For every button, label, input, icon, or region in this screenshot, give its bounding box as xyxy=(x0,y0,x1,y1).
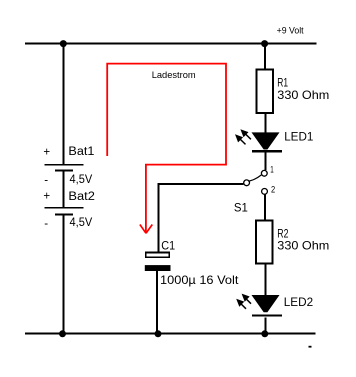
wire C1 vertical from switch xyxy=(157,183,159,252)
resistor R1 xyxy=(256,69,273,113)
svg-text:2: 2 xyxy=(271,185,275,196)
svg-text:-: - xyxy=(44,218,48,230)
battery Bat1 xyxy=(44,165,83,171)
node junction bottom battery column xyxy=(59,330,66,337)
LED1 diode xyxy=(252,132,283,151)
svg-text:+9 Volt: +9 Volt xyxy=(277,26,304,37)
wire R1 top xyxy=(264,44,266,70)
svg-text:Bat1: Bat1 xyxy=(68,146,94,158)
node junction bottom LED column xyxy=(261,330,268,337)
svg-text:-: - xyxy=(44,175,48,187)
svg-text:330 Ohm: 330 Ohm xyxy=(277,238,329,252)
svg-text:1000µ 16 Volt: 1000µ 16 Volt xyxy=(160,273,239,287)
svg-text:Bat2: Bat2 xyxy=(68,191,95,203)
wire C1 to bottom rail xyxy=(156,271,158,334)
svg-text:4,5V: 4,5V xyxy=(70,174,93,186)
switch S1 common contact xyxy=(244,180,250,186)
capacitor C1 xyxy=(145,253,171,271)
red charge current loop Ladestrom xyxy=(107,64,226,233)
switch S1 contact 2 xyxy=(262,189,268,195)
svg-text:Ladestrom: Ladestrom xyxy=(152,70,196,81)
red arrowhead xyxy=(140,225,152,234)
svg-text:+: + xyxy=(43,147,50,159)
svg-text:1: 1 xyxy=(270,165,274,176)
battery Bat2 xyxy=(44,208,83,215)
wire LED1 to switch contact 1 xyxy=(264,153,266,171)
svg-text:C1: C1 xyxy=(161,239,175,253)
svg-text:+: + xyxy=(43,190,50,202)
svg-text:S1: S1 xyxy=(234,201,248,215)
svg-text:LED1: LED1 xyxy=(284,130,314,144)
wire top rail xyxy=(25,43,316,45)
wire battery bottom xyxy=(62,214,64,333)
wire switch common to C1 column xyxy=(158,183,243,185)
switch S1 lever xyxy=(249,175,261,181)
node junction top LED column xyxy=(261,40,268,47)
svg-text:LED2: LED2 xyxy=(284,295,314,309)
svg-text:330 Ohm: 330 Ohm xyxy=(277,88,329,102)
wire LED2 to bottom rail xyxy=(264,318,266,334)
wire R2 to LED2 xyxy=(264,264,266,295)
stray mark bottom right xyxy=(309,346,312,348)
wire battery top xyxy=(62,44,64,165)
wire R1 to LED1 xyxy=(264,114,266,134)
svg-text:4,5V: 4,5V xyxy=(70,217,93,229)
node junction bottom C1 column xyxy=(155,330,162,337)
wire contact 2 to R2 xyxy=(264,194,266,220)
LED2 light arrows xyxy=(236,294,251,309)
resistor R2 xyxy=(256,221,273,264)
wire bottom rail xyxy=(25,333,316,335)
LED1 light arrows xyxy=(235,129,251,144)
LED2 diode xyxy=(252,295,283,316)
node junction top battery column xyxy=(60,40,67,47)
switch S1 contact 1 xyxy=(261,170,267,176)
wire between batteries xyxy=(62,171,64,208)
